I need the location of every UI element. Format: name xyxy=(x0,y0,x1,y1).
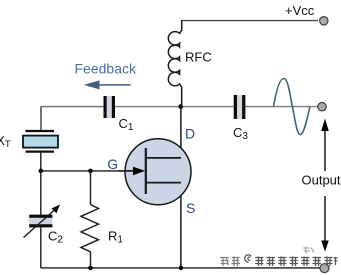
wire: feedback horizontal from crystal corner to C1 xyxy=(40,106,103,108)
node: R1 bottom junction xyxy=(88,266,93,271)
crystal XT xyxy=(0,131,58,152)
capacitor C1 xyxy=(104,96,134,133)
wire: C2 bottom lead xyxy=(40,227,42,268)
svg-text:Feedback: Feedback xyxy=(75,61,137,77)
node: source bottom junction xyxy=(179,266,184,271)
svg-text:S: S xyxy=(186,200,195,216)
watermark faint smudge above xyxy=(303,247,314,254)
wire: +Vcc rail xyxy=(182,20,318,22)
wire: C3 to output terminal xyxy=(246,106,320,108)
wire: drain junction to C3 xyxy=(181,106,234,108)
svg-text:+Vcc: +Vcc xyxy=(285,3,315,18)
node: drain junction xyxy=(178,104,183,109)
node: crystal/gate junction xyxy=(39,169,44,174)
watermark xyxy=(220,257,240,267)
output down arrow xyxy=(324,196,326,243)
wire: bottom rail xyxy=(41,267,321,269)
wire: feedback top-left vertical lead to crystal xyxy=(40,107,42,131)
transistor Q1 (JFET) xyxy=(119,139,191,205)
sine wave xyxy=(274,79,310,135)
wire: R1 top lead xyxy=(90,171,92,205)
wire: C2 top lead xyxy=(40,171,42,215)
wire: source vertical xyxy=(180,183,182,269)
output terminal bottom xyxy=(320,264,329,273)
power terminal +Vcc xyxy=(320,17,328,25)
inductor RFC xyxy=(168,20,181,107)
wire: drain vertical xyxy=(180,107,182,158)
wire: crystal bottom to gate node xyxy=(40,153,42,171)
resistor R1 xyxy=(81,205,123,252)
wire: gate horizontal xyxy=(41,170,134,172)
wire: R1 bottom lead xyxy=(90,252,92,268)
Feedback arrow xyxy=(84,80,131,89)
svg-text:D: D xyxy=(185,125,195,141)
capacitor C2 (variable) xyxy=(24,205,64,246)
svg-text:Output: Output xyxy=(302,173,341,188)
capacitor C3 xyxy=(233,95,248,142)
wire: C1 to drain junction xyxy=(115,106,181,108)
output terminal top xyxy=(318,103,326,111)
node: R1 top junction xyxy=(88,169,93,174)
svg-text:RFC: RFC xyxy=(185,50,212,65)
output up arrow xyxy=(324,127,326,171)
svg-text:G: G xyxy=(107,156,118,172)
